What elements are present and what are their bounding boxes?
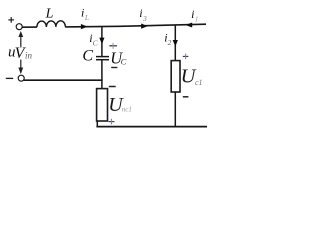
plus sign of Unc1	[109, 119, 115, 125]
svg-text:nc1: nc1	[122, 105, 132, 113]
label uVin	[8, 45, 33, 62]
svg-text:C: C	[121, 56, 127, 66]
wire bottom-left rail	[24, 79, 103, 81]
impedance box Unc1	[97, 89, 108, 121]
svg-text:C: C	[82, 47, 93, 64]
plus sign of Uc1	[183, 54, 189, 60]
minus sign of Uc1	[183, 96, 189, 98]
label Unc1	[108, 94, 132, 116]
arrowhead current iL	[81, 24, 88, 29]
terminal node + (top-left circle)	[16, 24, 22, 30]
label i2	[164, 30, 171, 46]
svg-text:L: L	[84, 13, 89, 22]
wire below Uc1 box to bottom rail	[174, 92, 176, 127]
svg-text:in: in	[25, 51, 33, 61]
svg-text:3: 3	[142, 14, 147, 23]
wire from + terminal to inductor	[22, 26, 37, 28]
svg-text:1: 1	[195, 14, 199, 23]
svg-text:L: L	[45, 6, 54, 21]
arrowhead current i3	[141, 24, 148, 29]
capacitor C	[96, 57, 109, 60]
inductor L	[37, 21, 66, 27]
label iC	[89, 31, 98, 47]
plus sign of UC	[109, 43, 117, 49]
wire below Unc1 box to bottom rail	[96, 121, 98, 127]
minus sign of UC	[111, 67, 117, 69]
wire capacitor branch lower segment	[101, 60, 103, 89]
terminal node - (bottom-left circle)	[18, 75, 24, 81]
label i3	[139, 6, 147, 23]
label iL	[81, 6, 89, 22]
minus sign of Unc1	[109, 86, 116, 88]
arrowhead current i2 (pointing down)	[173, 40, 178, 47]
plus sign of input terminal	[8, 17, 14, 23]
label i1	[191, 7, 198, 23]
label UC	[110, 48, 126, 67]
label Uc1	[181, 66, 203, 88]
voltage arrow uVin (up head)	[18, 31, 23, 47]
svg-text:2: 2	[168, 38, 172, 47]
svg-text:c1: c1	[195, 78, 203, 87]
minus sign of source	[6, 77, 13, 79]
wire bottom rail	[96, 126, 207, 128]
wire from inductor to right edge (top rail)	[65, 24, 206, 27]
impedance box Uc1	[171, 61, 180, 92]
arrowhead current i1 (pointing left)	[185, 23, 192, 28]
arrowhead current iC (pointing down)	[99, 38, 104, 45]
wire right branch upper segment	[174, 25, 176, 61]
svg-text:i: i	[81, 6, 84, 20]
voltage arrow uVin (down head toward - terminal)	[18, 60, 23, 75]
wire capacitor branch upper segment	[101, 26, 103, 56]
